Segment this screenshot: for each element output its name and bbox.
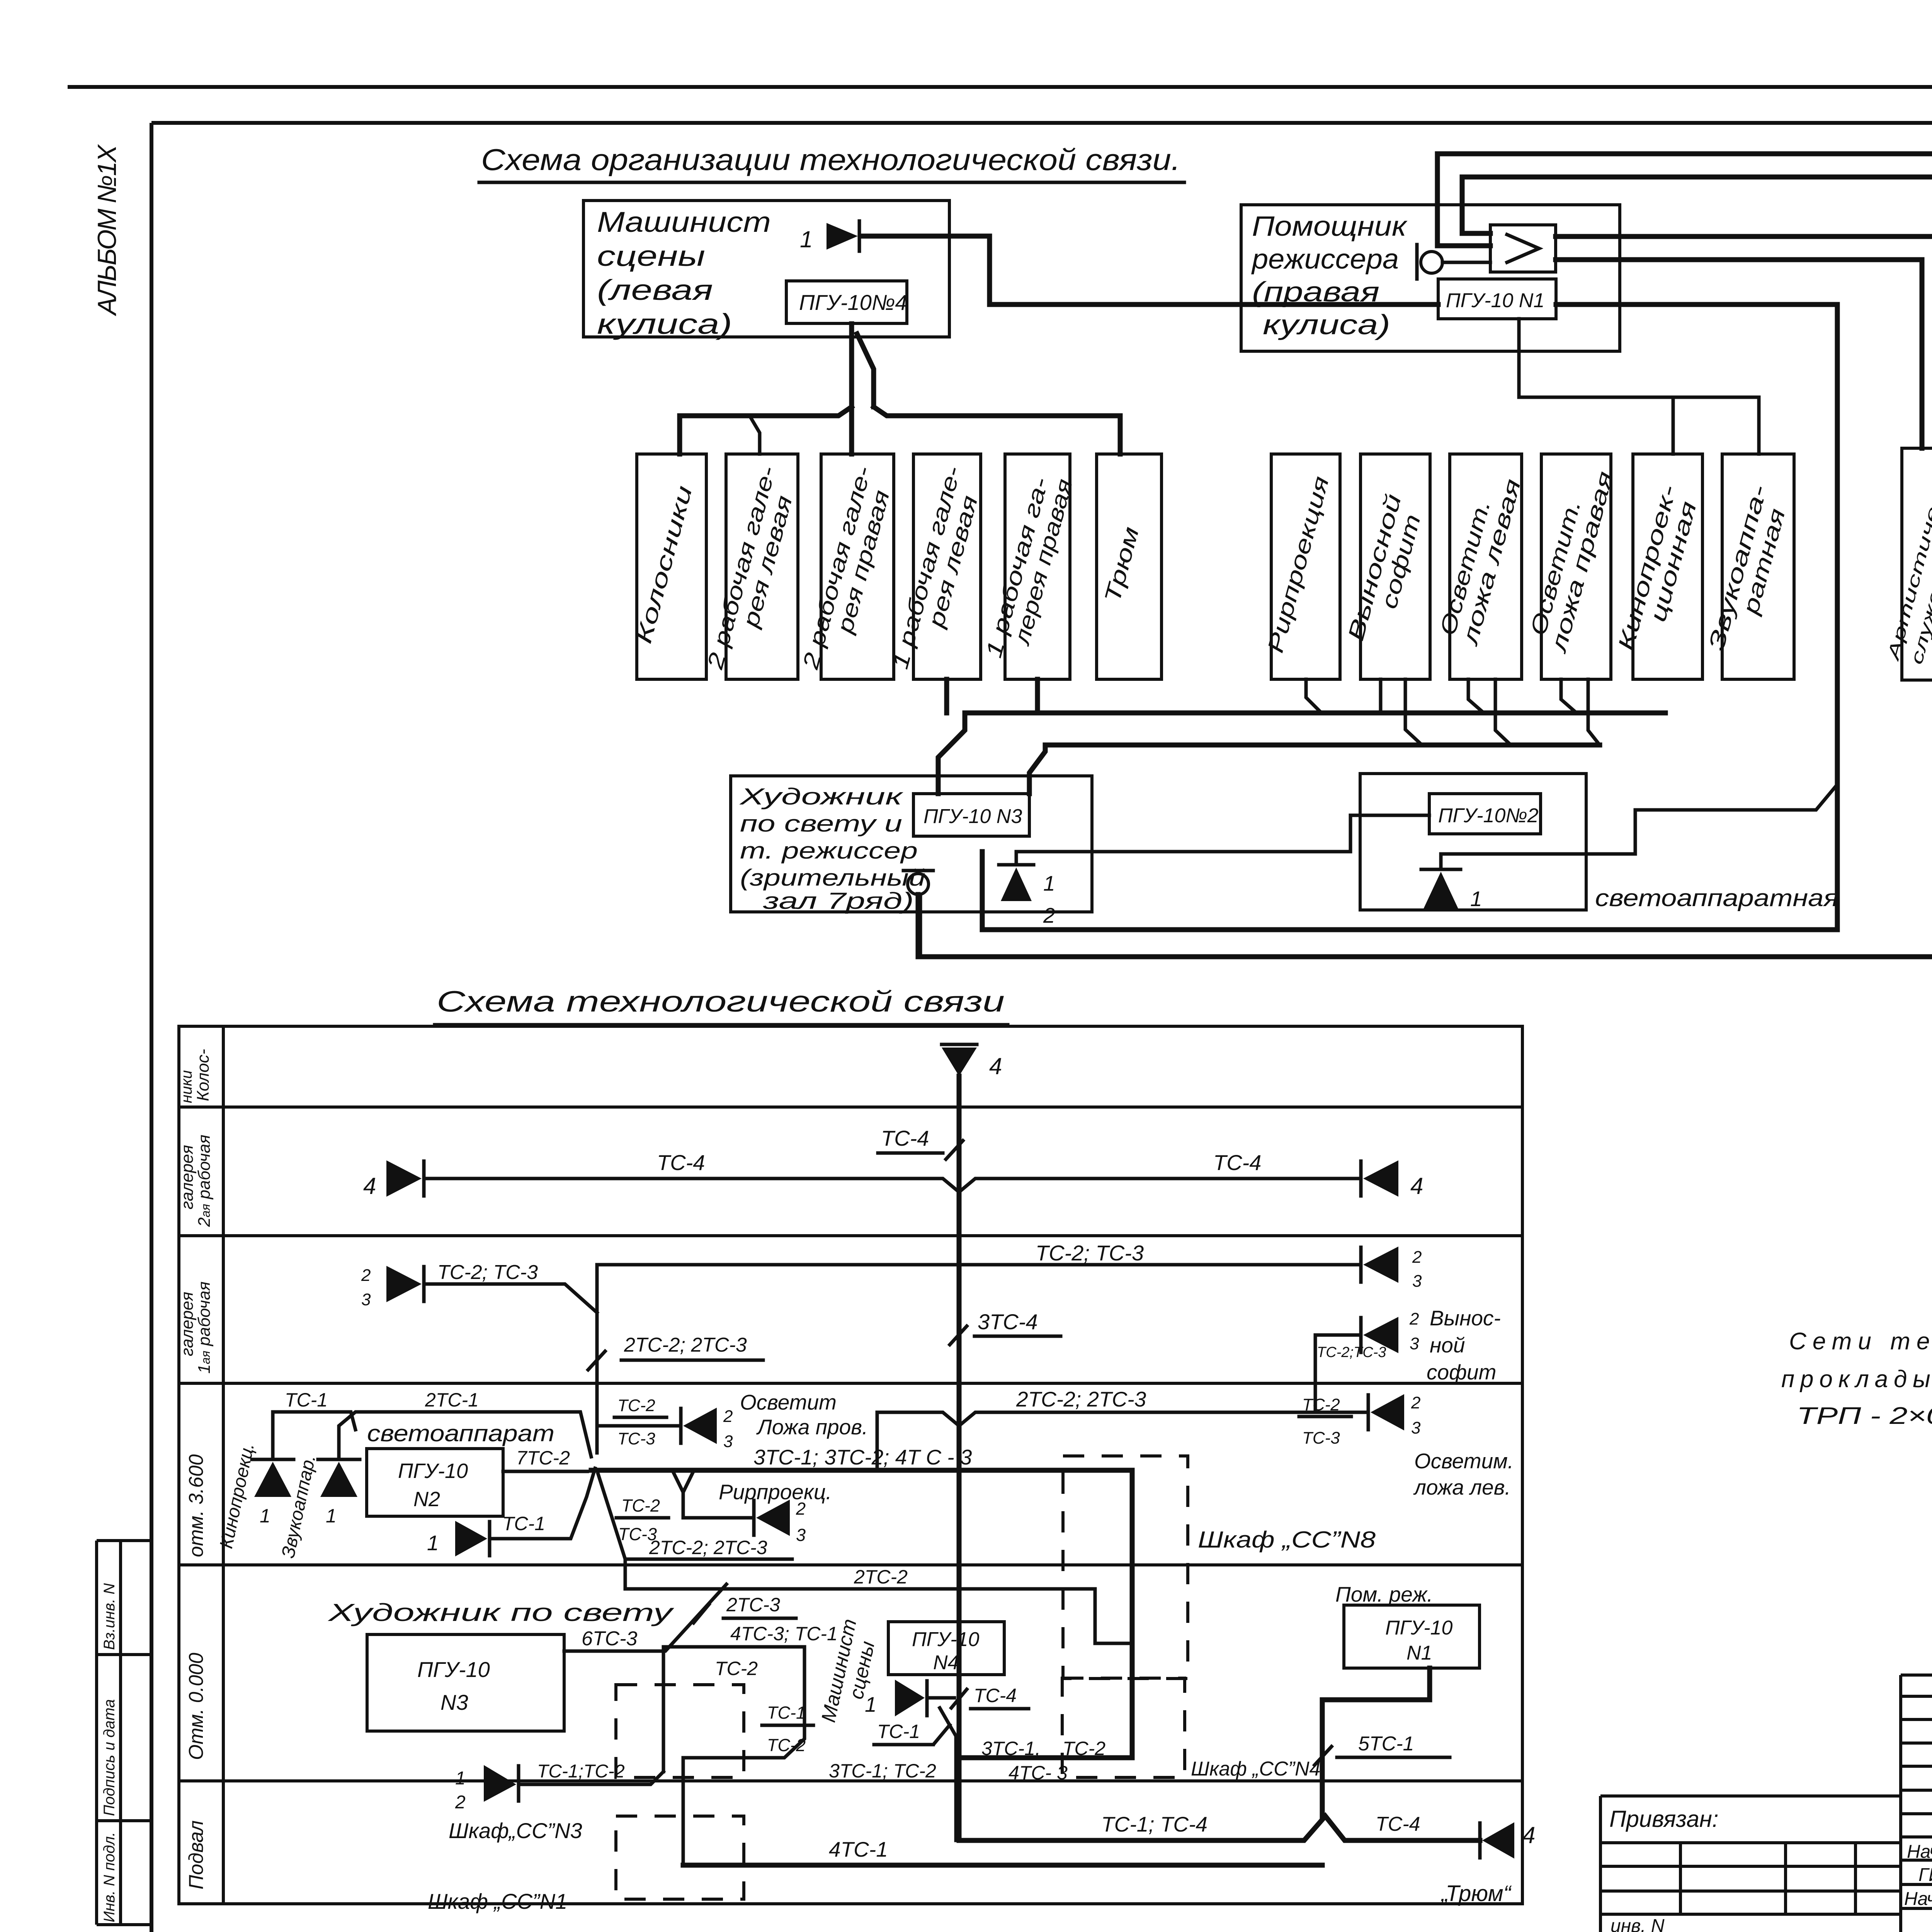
svg-text:N3: N3 xyxy=(440,1690,468,1714)
svg-text:(правая: (правая xyxy=(1252,277,1379,308)
svg-text:Осветит: Осветит xyxy=(740,1390,837,1414)
svg-text:сцены: сцены xyxy=(597,240,705,272)
svg-text:Нач.от.: Нач.от. xyxy=(1907,1842,1932,1862)
svg-text:Вз.инв. N: Вз.инв. N xyxy=(101,1583,118,1650)
svg-text:1: 1 xyxy=(326,1505,337,1527)
svg-text:ТС-2: ТС-2 xyxy=(621,1496,660,1515)
svg-text:2: 2 xyxy=(1409,1310,1419,1328)
svg-text:кулиса): кулиса) xyxy=(1263,310,1390,340)
svg-text:„Трюм“: „Трюм“ xyxy=(1440,1881,1512,1906)
svg-text:Подпись и дата: Подпись и дата xyxy=(101,1699,118,1816)
svg-text:4: 4 xyxy=(363,1173,376,1199)
svg-text:ТС-4: ТС-4 xyxy=(657,1150,705,1175)
svg-text:т. режиссер: т. режиссер xyxy=(740,838,918,864)
svg-text:отм. 3.600: отм. 3.600 xyxy=(185,1454,207,1557)
svg-text:5ТС-1: 5ТС-1 xyxy=(1358,1733,1414,1755)
svg-text:галерея: галерея xyxy=(178,1292,197,1356)
svg-text:Нач.гр.: Нач.гр. xyxy=(1904,1889,1932,1909)
svg-text:ТС-2; ТС-3: ТС-2; ТС-3 xyxy=(437,1261,538,1284)
svg-text:Отм. 0.000: Отм. 0.000 xyxy=(185,1653,207,1760)
svg-text:(зрительный: (зрительный xyxy=(740,865,925,891)
svg-text:ТС-2: ТС-2 xyxy=(1302,1395,1340,1414)
svg-text:2ТС-2: 2ТС-2 xyxy=(854,1566,908,1588)
svg-text:3: 3 xyxy=(723,1432,733,1451)
svg-text:Рирпроекц.: Рирпроекц. xyxy=(719,1480,832,1504)
svg-text:Подвал: Подвал xyxy=(185,1820,207,1889)
svg-text:ТС-4: ТС-4 xyxy=(1213,1150,1261,1175)
svg-text:ПГУ-10: ПГУ-10 xyxy=(1385,1617,1452,1639)
svg-text:ТС-4: ТС-4 xyxy=(974,1685,1017,1706)
svg-text:зал 7ряд): зал 7ряд) xyxy=(763,888,914,914)
svg-text:Осветим.: Осветим. xyxy=(1414,1449,1514,1473)
svg-text:ТС-1; ТС-4: ТС-1; ТС-4 xyxy=(1101,1812,1207,1836)
svg-text:1: 1 xyxy=(455,1768,466,1789)
svg-text:ТС-1: ТС-1 xyxy=(502,1513,545,1534)
svg-text:ПГУ-10№2: ПГУ-10№2 xyxy=(1438,804,1539,827)
svg-text:3ТС-4: 3ТС-4 xyxy=(978,1310,1038,1334)
svg-text:ники: ники xyxy=(178,1070,195,1103)
svg-text:Пом. реж.: Пом. реж. xyxy=(1335,1582,1433,1606)
svg-text:Схема технологической связи: Схема технологической связи xyxy=(437,985,1005,1018)
svg-text:4ТС-3; ТС-1: 4ТС-3; ТС-1 xyxy=(730,1623,838,1645)
svg-text:Вынос-: Вынос- xyxy=(1430,1306,1501,1330)
svg-text:Колос-: Колос- xyxy=(194,1049,213,1101)
svg-text:Художник по свету: Художник по свету xyxy=(327,1599,675,1626)
svg-text:3: 3 xyxy=(1411,1418,1421,1437)
svg-text:ТС-2: ТС-2 xyxy=(715,1658,758,1679)
svg-text:4: 4 xyxy=(1410,1173,1423,1199)
svg-text:Шкаф„СС”N3: Шкаф„СС”N3 xyxy=(449,1818,582,1843)
svg-text:ПГУ-10: ПГУ-10 xyxy=(417,1657,490,1682)
svg-text:ТС-1;ТС-2: ТС-1;ТС-2 xyxy=(537,1761,625,1782)
svg-text:ТС-2: ТС-2 xyxy=(1063,1738,1105,1759)
svg-text:2ТС-2; 2ТС-3: 2ТС-2; 2ТС-3 xyxy=(1016,1387,1146,1411)
svg-text:3: 3 xyxy=(1412,1272,1422,1291)
svg-text:3: 3 xyxy=(796,1525,806,1545)
svg-text:(левая: (левая xyxy=(597,274,713,306)
svg-text:1: 1 xyxy=(1043,871,1055,895)
svg-text:Помощник: Помощник xyxy=(1252,211,1408,242)
svg-text:ТС-1: ТС-1 xyxy=(285,1389,328,1411)
svg-text:АЛЬБОМ №1Х: АЛЬБОМ №1Х xyxy=(92,144,122,316)
svg-text:2: 2 xyxy=(1412,1248,1422,1267)
svg-text:Художник: Художник xyxy=(739,784,904,810)
svg-text:4ТС- 3: 4ТС- 3 xyxy=(1009,1762,1068,1784)
svg-text:ПГУ-10 N1: ПГУ-10 N1 xyxy=(1446,289,1544,312)
svg-text:N1: N1 xyxy=(1406,1642,1432,1664)
svg-text:4ТС-1: 4ТС-1 xyxy=(829,1837,888,1861)
svg-text:режиссера: режиссера xyxy=(1251,244,1399,275)
svg-text:2: 2 xyxy=(361,1266,371,1285)
svg-text:ТС-2: ТС-2 xyxy=(767,1735,806,1755)
svg-text:Ложа пров.: Ложа пров. xyxy=(756,1415,868,1439)
svg-text:ГИП: ГИП xyxy=(1918,1865,1932,1885)
svg-text:3ТС-1; 3ТС-2; 4Т С - 3: 3ТС-1; 3ТС-2; 4Т С - 3 xyxy=(753,1445,972,1469)
svg-text:Схема организации технологичес: Схема организации технологической связи. xyxy=(481,143,1180,177)
svg-text:Привязан:: Привязан: xyxy=(1609,1806,1719,1832)
svg-text:7ТС-2: 7ТС-2 xyxy=(516,1447,570,1469)
svg-text:ТС-2;ТС-3: ТС-2;ТС-3 xyxy=(1317,1344,1386,1361)
svg-text:3: 3 xyxy=(1410,1334,1419,1353)
svg-text:ложа лев.: ложа лев. xyxy=(1413,1475,1511,1499)
svg-text:4: 4 xyxy=(989,1053,1002,1079)
svg-text:ТС-4: ТС-4 xyxy=(1376,1813,1420,1835)
svg-text:ТС-3: ТС-3 xyxy=(1302,1429,1340,1447)
svg-text:2: 2 xyxy=(1411,1393,1420,1412)
svg-text:инв. N: инв. N xyxy=(1611,1916,1665,1932)
svg-text:2: 2 xyxy=(455,1792,466,1813)
svg-text:ПГУ-10: ПГУ-10 xyxy=(912,1628,979,1651)
svg-text:1: 1 xyxy=(865,1692,877,1716)
svg-text:2: 2 xyxy=(723,1407,733,1426)
svg-text:1: 1 xyxy=(260,1505,270,1527)
svg-text:2ТС-3: 2ТС-3 xyxy=(726,1594,780,1616)
svg-text:ТС-2; ТС-3: ТС-2; ТС-3 xyxy=(1036,1241,1144,1265)
svg-text:светоаппарат: светоаппарат xyxy=(367,1420,554,1446)
svg-text:ПГУ-10 N3: ПГУ-10 N3 xyxy=(923,805,1022,828)
svg-text:3ТС-1,: 3ТС-1, xyxy=(981,1738,1041,1759)
svg-text:1: 1 xyxy=(427,1531,439,1555)
svg-text:ПГУ-10№4: ПГУ-10№4 xyxy=(799,290,907,315)
svg-text:по свету и: по свету и xyxy=(740,811,902,837)
svg-text:N4: N4 xyxy=(933,1651,959,1674)
svg-text:2ТС-2; 2ТС-3: 2ТС-2; 2ТС-3 xyxy=(624,1334,747,1356)
svg-text:ТРП - 2×0,5 (Индекс ТС-1; ТС-2: ТРП - 2×0,5 (Индекс ТС-1; ТС-2; ТС-3; ТС… xyxy=(1797,1403,1932,1429)
svg-text:ТС-1: ТС-1 xyxy=(877,1721,920,1742)
svg-text:2: 2 xyxy=(1043,903,1055,927)
svg-text:ТС-3: ТС-3 xyxy=(617,1429,655,1448)
svg-text:Шкаф „СС”N1: Шкаф „СС”N1 xyxy=(428,1889,567,1913)
svg-text:ПГУ-10: ПГУ-10 xyxy=(398,1459,468,1483)
svg-text:ной: ной xyxy=(1430,1333,1465,1357)
svg-text:Шкаф „СС”N4: Шкаф „СС”N4 xyxy=(1191,1758,1320,1780)
svg-text:галерея: галерея xyxy=(178,1145,197,1209)
svg-text:3ТС-1; ТС-2: 3ТС-1; ТС-2 xyxy=(829,1760,936,1782)
svg-text:2ТС-2; 2ТС-3: 2ТС-2; 2ТС-3 xyxy=(649,1537,767,1558)
svg-text:Шкаф „СС”N8: Шкаф „СС”N8 xyxy=(1198,1527,1376,1553)
svg-text:2ТС-1: 2ТС-1 xyxy=(425,1389,479,1411)
svg-text:Машинист: Машинист xyxy=(597,206,771,238)
svg-text:N2: N2 xyxy=(413,1488,440,1511)
svg-text:кулиса): кулиса) xyxy=(597,308,732,340)
svg-text:3: 3 xyxy=(361,1290,371,1309)
svg-text:1: 1 xyxy=(1470,887,1482,911)
svg-text:1: 1 xyxy=(800,226,813,252)
svg-text:ТС-2: ТС-2 xyxy=(617,1396,655,1415)
svg-text:Инв. N подл.: Инв. N подл. xyxy=(101,1832,118,1922)
svg-text:софит: софит xyxy=(1427,1360,1496,1384)
svg-text:ТС-1: ТС-1 xyxy=(767,1703,806,1723)
svg-text:ТС-4: ТС-4 xyxy=(881,1126,929,1150)
svg-text:светоаппаратная: светоаппаратная xyxy=(1595,885,1838,912)
svg-text:4: 4 xyxy=(1522,1822,1535,1848)
svg-text:6ТС-3: 6ТС-3 xyxy=(582,1628,638,1650)
